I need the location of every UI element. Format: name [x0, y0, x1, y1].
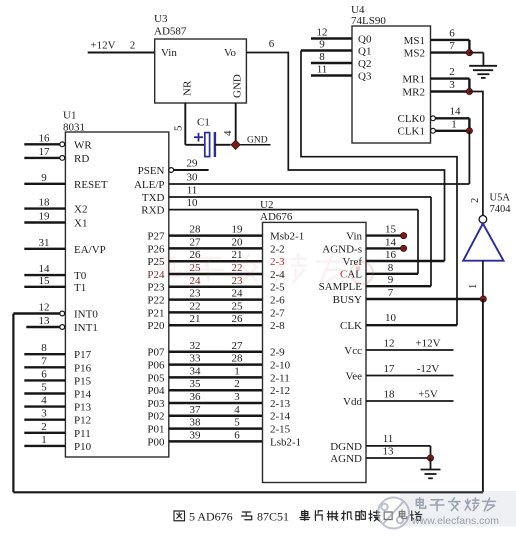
svg-text:Vin: Vin — [161, 47, 177, 59]
svg-text:P20: P20 — [147, 320, 165, 332]
svg-text:P00: P00 — [147, 436, 165, 448]
svg-text:2: 2 — [449, 66, 455, 78]
svg-text:Vin: Vin — [346, 231, 362, 243]
svg-text:13: 13 — [39, 315, 51, 327]
svg-text:P03: P03 — [147, 398, 165, 410]
svg-text:CLK: CLK — [340, 320, 362, 332]
svg-text:Vo: Vo — [224, 47, 237, 59]
svg-text:1: 1 — [451, 118, 457, 130]
svg-text:9: 9 — [41, 172, 47, 184]
wire U1 P22 (pin 23) to U2 pin 24 — [169, 288, 263, 300]
U1 pin 12 INT0 — [13, 302, 98, 321]
U1 pin 29 PSEN stub wire — [169, 158, 209, 173]
svg-text:6: 6 — [449, 27, 455, 39]
svg-text:+12V: +12V — [90, 40, 115, 52]
svg-text:38: 38 — [190, 417, 202, 429]
wire U1 P23 (pin 24) to U2 pin 23 — [169, 275, 263, 287]
svg-text:3: 3 — [449, 79, 455, 91]
svg-text:P26: P26 — [147, 243, 165, 255]
svg-text:2: 2 — [41, 421, 47, 433]
U2 right side pin name labels — [319, 231, 363, 465]
junction C1 / GND (diamond) — [231, 140, 240, 149]
svg-text:2-12: 2-12 — [270, 385, 290, 397]
svg-text:28: 28 — [190, 224, 202, 236]
svg-text:17: 17 — [384, 363, 396, 375]
svg-text:19: 19 — [232, 224, 244, 236]
svg-text:3: 3 — [234, 391, 240, 403]
svg-text:GND: GND — [247, 136, 268, 146]
U2 pin 16 Vref wire — [366, 249, 445, 261]
U1 right side pin name labels — [134, 165, 165, 448]
svg-text:35: 35 — [190, 378, 202, 390]
svg-text:22: 22 — [232, 262, 243, 274]
svg-text:CLK0: CLK0 — [398, 113, 426, 125]
svg-text:+5V: +5V — [418, 389, 438, 401]
svg-text:Vdd: Vdd — [343, 396, 362, 408]
U4 pin 11 Q3 wire — [311, 64, 372, 83]
net: U4 Q1 to U2 CLK — [301, 51, 457, 326]
svg-text:19: 19 — [39, 211, 51, 223]
svg-text:T1: T1 — [74, 282, 86, 294]
U1 pin 14 T0 — [24, 263, 86, 282]
U1 pin 9 RESET — [24, 172, 108, 191]
svg-text:8031: 8031 — [63, 122, 85, 134]
svg-text:74LS90: 74LS90 — [351, 15, 386, 27]
GND net label stub — [240, 136, 270, 146]
svg-text:www.elecfans.com: www.elecfans.com — [411, 515, 499, 527]
svg-text:DGND: DGND — [330, 441, 362, 453]
wire BUSY loop down right side — [482, 299, 484, 492]
svg-text:15: 15 — [39, 275, 51, 287]
inverter U5A 7404 — [463, 193, 511, 290]
U2 pin 8 CAL wire — [366, 262, 418, 274]
decorative red watermark tint (middle) — [160, 253, 373, 284]
svg-text:ALE/P: ALE/P — [134, 179, 165, 191]
wire U1 P03 (pin 36) to U2 pin 3 — [169, 391, 263, 403]
svg-text:2-11: 2-11 — [270, 372, 290, 384]
svg-text:11: 11 — [383, 433, 394, 445]
svg-text:T0: T0 — [74, 270, 87, 282]
U2 pin 14 AGND-s wire — [366, 236, 407, 251]
svg-text:GND: GND — [232, 74, 244, 98]
U2 pin 17 Vee wire -12V — [366, 363, 454, 375]
svg-text:2: 2 — [130, 40, 136, 52]
svg-text:7: 7 — [41, 355, 47, 367]
svg-text:P02: P02 — [147, 411, 164, 423]
svg-text:AGND-s: AGND-s — [322, 243, 362, 255]
svg-text:20: 20 — [232, 236, 244, 248]
svg-text:18: 18 — [39, 197, 51, 209]
svg-text:21: 21 — [232, 249, 243, 261]
ground symbol (analog ground) — [421, 458, 441, 478]
svg-text:P01: P01 — [147, 424, 164, 436]
svg-text:P17: P17 — [74, 349, 92, 361]
net: TXD to SAMPLE — [169, 185, 431, 287]
IC U2 AD676 body — [260, 199, 366, 483]
U4 pin 1 CLK1 wire — [431, 118, 470, 133]
U4 right pin labels — [398, 35, 426, 138]
wire U1 P24 (pin 25) to U2 pin 22 — [169, 262, 263, 274]
svg-text:7: 7 — [388, 287, 394, 299]
U1 pin 6 P15 — [24, 368, 91, 387]
U2 data bit labels Msb2-1 .. 2-8 — [270, 231, 304, 333]
svg-text:AD676: AD676 — [260, 211, 293, 223]
U2 data bit labels 2-9 .. Lsb2-1 — [270, 347, 301, 449]
svg-text:37: 37 — [190, 404, 202, 416]
svg-text:P11: P11 — [74, 428, 91, 440]
svg-text:U5A: U5A — [490, 193, 511, 204]
svg-text:P14: P14 — [74, 389, 92, 401]
U1 pin 5 P14 — [24, 382, 91, 401]
svg-text:27: 27 — [190, 236, 202, 248]
svg-text:1: 1 — [41, 434, 47, 446]
svg-text:24: 24 — [232, 288, 244, 300]
svg-text:C1: C1 — [197, 117, 210, 129]
wire U1 P27 (pin 28) to U2 pin 19 — [169, 224, 263, 236]
junction MR1/MR2 — [466, 79, 472, 95]
svg-text:-12V: -12V — [417, 363, 440, 375]
svg-text:Vee: Vee — [346, 370, 363, 382]
svg-text:87C51: 87C51 — [257, 510, 289, 524]
wire U1 P00 (pin 39) to U2 pin 6 — [169, 429, 263, 441]
svg-text:22: 22 — [190, 300, 201, 312]
net: U3 Vo pin 6 to U2 Vref — [246, 38, 444, 261]
U2 pin 11 DGND wire — [366, 433, 431, 446]
svg-text:1: 1 — [468, 284, 479, 289]
svg-text:P21: P21 — [147, 307, 164, 319]
svg-text:P15: P15 — [74, 375, 92, 387]
svg-text:Vcc: Vcc — [344, 345, 362, 357]
svg-text:MS1: MS1 — [404, 35, 425, 47]
svg-text:PSEN: PSEN — [138, 165, 165, 177]
svg-text:3: 3 — [41, 408, 47, 420]
svg-text:23: 23 — [190, 288, 202, 300]
wire U1 P21 (pin 22) to U2 pin 25 — [169, 300, 263, 312]
svg-text:Q1: Q1 — [358, 45, 371, 57]
wire U1 P04 (pin 35) to U2 pin 2 — [169, 378, 263, 390]
wire U1 P07 (pin 32) to U2 pin 27 — [169, 340, 263, 352]
svg-text:2-10: 2-10 — [270, 360, 291, 372]
svg-text:29: 29 — [187, 158, 199, 170]
svg-text:34: 34 — [190, 365, 202, 377]
svg-text:P23: P23 — [147, 282, 165, 294]
svg-text:14: 14 — [39, 263, 51, 275]
IC U1 8031 body — [63, 110, 169, 458]
wire U1 P25 (pin 26) to U2 pin 21 — [169, 249, 263, 261]
svg-text:10: 10 — [187, 197, 199, 209]
svg-text:RESET: RESET — [74, 179, 108, 191]
wire U1 P02 (pin 37) to U2 pin 4 — [169, 404, 263, 416]
wire U1 P06 (pin 33) to U2 pin 28 — [169, 353, 263, 365]
net: MR tie to inverter output — [469, 92, 483, 216]
net: ALE/P to CLK inputs — [169, 131, 470, 184]
svg-text:TXD: TXD — [142, 192, 165, 204]
svg-text:NR: NR — [181, 80, 193, 96]
svg-text:5: 5 — [234, 417, 240, 429]
svg-text:10: 10 — [385, 312, 397, 324]
svg-text:WR: WR — [74, 139, 92, 151]
svg-text:12: 12 — [317, 27, 328, 39]
svg-text:P10: P10 — [74, 441, 92, 453]
svg-text:36: 36 — [190, 391, 202, 403]
svg-text:5: 5 — [41, 382, 47, 394]
U2 pin 13 AGND wire — [366, 446, 431, 459]
svg-text:25: 25 — [190, 262, 202, 274]
svg-text:6: 6 — [41, 368, 47, 380]
svg-text:13: 13 — [383, 446, 395, 458]
U4 pin 8 Q2 wire — [311, 51, 371, 70]
svg-text:4: 4 — [222, 130, 234, 136]
svg-text:Q0: Q0 — [358, 33, 372, 45]
svg-text:7: 7 — [449, 40, 455, 52]
svg-text:U3: U3 — [154, 13, 168, 25]
svg-text:12: 12 — [384, 338, 395, 350]
svg-text:28: 28 — [232, 353, 244, 365]
svg-text:27: 27 — [232, 340, 244, 352]
U4 pin 14 CLK0 wire — [431, 105, 470, 120]
svg-text:MR2: MR2 — [402, 86, 425, 98]
svg-text:31: 31 — [39, 237, 50, 249]
U2 pin 15 Vin wire (analog input) — [366, 224, 407, 239]
svg-text:X2: X2 — [74, 204, 87, 216]
U1 pin 1 P10 — [24, 434, 91, 453]
junction CLK0/CLK1/ALE — [466, 118, 472, 134]
U1 pin 3 P12 — [24, 408, 91, 427]
U1 pin 31 EA/VP — [24, 237, 105, 256]
svg-text:1: 1 — [234, 365, 240, 377]
svg-text:P07: P07 — [147, 347, 165, 359]
wire U1 P20 (pin 21) to U2 pin 26 — [169, 313, 263, 325]
svg-text:P12: P12 — [74, 415, 91, 427]
svg-text:39: 39 — [190, 429, 202, 441]
svg-text:2-6: 2-6 — [270, 295, 285, 307]
svg-text:P27: P27 — [147, 231, 165, 243]
svg-text:Lsb2-1: Lsb2-1 — [270, 436, 301, 448]
U2 pin 12 Vcc wire +12V — [366, 338, 454, 350]
svg-text:6: 6 — [234, 429, 240, 441]
svg-text:2-2: 2-2 — [270, 243, 285, 255]
svg-text:AGND: AGND — [330, 453, 362, 465]
svg-text:8: 8 — [319, 51, 325, 63]
U4 pin 7 MS2 wire — [431, 40, 470, 53]
svg-text:MS2: MS2 — [404, 48, 425, 60]
svg-text:2-8: 2-8 — [270, 320, 285, 332]
U3 pin 4 GND wire down — [222, 103, 236, 145]
svg-text:2: 2 — [470, 198, 481, 203]
svg-text:P22: P22 — [147, 295, 164, 307]
svg-text:9: 9 — [388, 274, 394, 286]
svg-text:2-15: 2-15 — [270, 424, 291, 436]
svg-text:24: 24 — [190, 275, 202, 287]
svg-text:+12V: +12V — [415, 338, 440, 350]
U1 pin 4 P13 — [24, 395, 91, 414]
svg-text:25: 25 — [232, 300, 244, 312]
svg-text:RD: RD — [74, 153, 89, 165]
U1 pin 19 X1 — [24, 211, 87, 230]
svg-text:26: 26 — [232, 313, 244, 325]
svg-text:U4: U4 — [351, 4, 365, 16]
svg-text:16: 16 — [39, 132, 51, 144]
svg-text:14: 14 — [450, 105, 462, 117]
wire U1 P01 (pin 38) to U2 pin 5 — [169, 417, 263, 429]
U1 pin 18 X2 — [24, 197, 87, 216]
svg-text:17: 17 — [39, 146, 51, 158]
svg-text:2-14: 2-14 — [270, 411, 291, 423]
svg-text:23: 23 — [232, 275, 244, 287]
junction BUSY / INT0 loop — [480, 296, 486, 302]
voltage reference U3 AD587 body — [154, 13, 246, 103]
svg-text:8: 8 — [388, 262, 394, 274]
U1 pin 16 WR — [24, 132, 92, 151]
svg-text:15: 15 — [385, 224, 397, 236]
U2 pin 9 SAMPLE wire — [366, 274, 431, 286]
svg-text:7404: 7404 — [490, 204, 512, 215]
U2 pin 7 BUSY wire — [366, 287, 483, 299]
svg-text:INT0: INT0 — [74, 309, 98, 321]
svg-text:26: 26 — [190, 249, 202, 261]
wire left run up to INT0 — [12, 314, 14, 493]
+12V supply wire to U3 pin 2 Vin — [88, 40, 155, 53]
svg-text:8: 8 — [41, 342, 47, 354]
U4 pin 3 MR2 wire — [431, 79, 470, 92]
svg-text:Q3: Q3 — [358, 70, 372, 82]
U1 pin 2 P11 — [24, 421, 90, 440]
svg-text:2-7: 2-7 — [270, 307, 285, 319]
net: RXD to CAL — [169, 197, 418, 274]
svg-text:2-5: 2-5 — [270, 282, 285, 294]
svg-text:P16: P16 — [74, 362, 92, 374]
svg-text:U1: U1 — [63, 110, 76, 122]
svg-text:RXD: RXD — [141, 205, 164, 217]
svg-text:32: 32 — [190, 340, 201, 352]
svg-text:18: 18 — [384, 389, 396, 401]
U1 pin 13 INT1 — [26, 315, 98, 334]
U2 pin 18 Vdd wire +5V — [366, 389, 454, 401]
svg-text:30: 30 — [187, 172, 199, 184]
wire bottom run to left — [13, 491, 483, 493]
svg-text:P05: P05 — [147, 372, 165, 384]
svg-text:AD587: AD587 — [154, 26, 187, 38]
svg-text:4: 4 — [234, 404, 240, 416]
svg-text:Q2: Q2 — [358, 58, 371, 70]
svg-text:5 AD676: 5 AD676 — [189, 510, 233, 524]
svg-text:BUSY: BUSY — [333, 294, 362, 306]
U3 pin 5 NR wire down — [173, 103, 186, 145]
svg-text:P04: P04 — [147, 385, 165, 397]
svg-text:2: 2 — [234, 378, 240, 390]
svg-text:6: 6 — [269, 38, 275, 50]
junction AGND/DGND — [427, 446, 433, 461]
U4 pin 12 Q0 wire — [311, 27, 372, 46]
svg-text:9: 9 — [319, 39, 325, 51]
U4 pin 9 Q1 wire — [301, 39, 371, 58]
U1 pin 17 RD — [24, 146, 89, 165]
svg-text:11: 11 — [317, 64, 328, 76]
counter U4 74LS90 body — [351, 4, 431, 143]
svg-text:2-9: 2-9 — [270, 347, 285, 359]
decorative watermark bottom right — [378, 491, 516, 529]
caption: figure 5 AD676 and 87C51 MCU interface circuit — [174, 510, 422, 524]
svg-text:P13: P13 — [74, 402, 92, 414]
svg-text:5: 5 — [173, 125, 185, 131]
wire U1 P05 (pin 34) to U2 pin 1 — [169, 365, 263, 377]
U1 pin 7 P16 — [24, 355, 91, 374]
svg-text:14: 14 — [385, 236, 397, 248]
U4 pin 2 MR1 wire — [431, 66, 470, 79]
svg-text:INT1: INT1 — [74, 322, 98, 334]
junction MS1/MS2 — [466, 40, 472, 56]
U2 pin 10 CLK wire — [366, 312, 457, 325]
svg-text:16: 16 — [385, 249, 397, 261]
svg-text:12: 12 — [39, 302, 50, 314]
wire U1 P26 (pin 27) to U2 pin 20 — [169, 236, 263, 248]
svg-text:EA/VP: EA/VP — [74, 244, 106, 256]
svg-text:P06: P06 — [147, 360, 165, 372]
svg-text:CLK1: CLK1 — [398, 126, 426, 138]
U1 pin 8 P17 — [24, 342, 91, 361]
svg-text:33: 33 — [190, 353, 202, 365]
U1 pin 15 T1 — [24, 275, 86, 294]
U4 pin 6 MS1 wire — [431, 27, 470, 40]
svg-text:X1: X1 — [74, 218, 87, 230]
capacitor C1 (polarized, blue) — [185, 117, 230, 158]
net: inverter input from BUSY — [482, 261, 484, 299]
svg-text:MR1: MR1 — [402, 74, 425, 86]
svg-text:21: 21 — [190, 313, 201, 325]
ground symbol (MS tie) — [469, 53, 497, 78]
svg-text:11: 11 — [187, 185, 198, 197]
svg-text:Msb2-1: Msb2-1 — [270, 231, 304, 243]
svg-text:2-13: 2-13 — [270, 398, 291, 410]
svg-text:4: 4 — [41, 395, 47, 407]
